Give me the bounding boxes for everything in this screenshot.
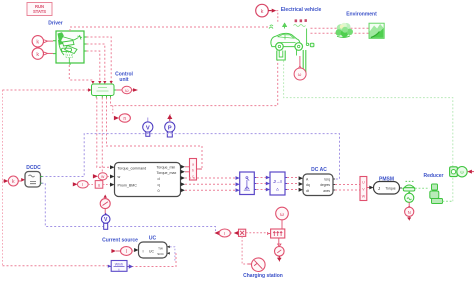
svg-text:STATS: STATS — [33, 9, 46, 14]
svg-text:0: 0 — [158, 189, 160, 193]
wire: control out3 feedback to TP block — [107, 98, 203, 170]
voltage sensor V vertical — [101, 213, 110, 230]
svg-text:d: d — [158, 177, 160, 181]
wires inverter to 3ph block — [335, 184, 360, 186]
svg-text:I: I — [142, 249, 143, 253]
svg-text:UC: UC — [149, 236, 157, 242]
wire X down to clock — [242, 236, 248, 264]
environment road block — [369, 23, 384, 38]
svg-text:N: N — [408, 210, 411, 215]
svg-text:k: k — [36, 52, 39, 58]
svg-text:w: w — [118, 175, 121, 179]
wires car to environment — [311, 27, 370, 29]
inverter block — [303, 174, 335, 196]
driver block D1 — [53, 29, 87, 65]
run stats box — [27, 3, 52, 16]
wire: driver top rail to car — [70, 27, 270, 31]
PMSM motor block — [374, 182, 403, 195]
svg-text:Reducer: Reducer — [423, 173, 443, 179]
svg-text:Current source: Current source — [102, 238, 138, 244]
multiply X block — [239, 229, 246, 236]
wire: driver out2 — [87, 44, 105, 81]
svg-text:a: a — [192, 163, 194, 167]
svg-text:Torque: Torque — [385, 187, 395, 191]
wire UC to lower purple — [170, 247, 175, 262]
wire: control out4 to vehicle — [111, 60, 278, 106]
svg-text:DC AC: DC AC — [311, 167, 327, 173]
svg-text:U: U — [362, 181, 365, 185]
svg-text:SOC: SOC — [157, 252, 164, 256]
shaft PMSM to inertia — [402, 187, 404, 189]
svg-text:b: b — [192, 169, 194, 173]
wire: driver out1 — [87, 37, 112, 81]
clock source — [248, 258, 265, 272]
gain k1 — [32, 36, 53, 47]
svg-text:Torque_command: Torque_command — [118, 166, 147, 170]
wire: dc bus purple rail — [42, 134, 340, 179]
wire: driver out3 — [87, 51, 100, 81]
three phase bus block — [360, 177, 370, 201]
wire: control out2 down to w source — [101, 98, 103, 172]
arrows out of torque block right — [181, 165, 186, 192]
arrows into control unit top — [91, 81, 112, 84]
arrow + sensor ellipse left of X — [214, 229, 238, 237]
svg-text:unit: unit — [119, 77, 128, 83]
wire: left edge loop vertical — [2, 90, 4, 266]
wire: mech green rail — [452, 177, 454, 202]
svg-text:Torque_max: Torque_max — [157, 171, 177, 175]
charging omega sensor — [276, 207, 289, 229]
wires switch to JI — [257, 177, 267, 179]
vehicle speed sensor — [294, 56, 306, 80]
shaft gearbox to vertical — [443, 200, 453, 202]
voltage sensor V on dc rail — [143, 118, 153, 137]
svg-text:Driver: Driver — [48, 20, 63, 26]
svg-text:Charging station: Charging station — [243, 273, 283, 279]
torque command block — [115, 163, 181, 197]
svg-text:P: P — [168, 125, 172, 131]
dcdc converter block — [25, 172, 43, 188]
svg-text:ω: ω — [280, 212, 284, 218]
rotary spring below inertia — [405, 191, 414, 202]
svg-text:k: k — [12, 179, 15, 185]
svg-text:W: W — [362, 195, 366, 199]
svg-text:Pnom_BMC: Pnom_BMC — [118, 183, 138, 187]
svg-text:I: I — [224, 231, 225, 236]
svg-text:UC: UC — [149, 249, 154, 253]
sensor n below rail — [113, 106, 131, 123]
svg-text:DCDC: DCDC — [26, 165, 41, 171]
rotary speed sensor w right of control unit — [116, 86, 138, 93]
svg-text:dt: dt — [306, 189, 309, 193]
gearbox — [430, 184, 443, 204]
arrow into PMSM — [369, 186, 373, 190]
wires d q 0 to inverter chain — [185, 177, 236, 179]
wheel torque source pair — [450, 167, 468, 177]
rotary inertia — [403, 181, 415, 191]
power sensor below multiplier — [100, 195, 110, 215]
svg-text:J: J — [378, 186, 380, 191]
gain k above car — [256, 4, 278, 23]
svg-text:Δ: Δ — [276, 187, 279, 192]
TP limiter block — [185, 159, 202, 181]
svg-text:degres: degres — [320, 183, 330, 187]
J to I transform block — [270, 172, 287, 195]
svg-text:dq: dq — [306, 183, 310, 187]
arrow into UC — [134, 248, 138, 252]
charge power sensor — [275, 238, 285, 260]
wire: driver bottom to control — [69, 65, 93, 82]
gain k2 — [32, 48, 53, 59]
svg-text:n: n — [123, 116, 126, 122]
power sensor P on dc rail — [165, 116, 175, 138]
svg-text:Electrical vehicle: Electrical vehicle — [281, 7, 322, 13]
svg-text:q: q — [158, 183, 160, 187]
gain k3 at left edge — [3, 176, 26, 186]
multiplier square — [95, 181, 109, 189]
speed sensor below — [405, 202, 414, 219]
svg-text:Environment: Environment — [346, 11, 377, 17]
ports of driver — [53, 29, 87, 65]
svg-text:k: k — [36, 40, 39, 46]
arrows into torque block left — [110, 165, 115, 186]
svg-text:Wh/h: Wh/h — [115, 262, 123, 266]
current source sensor I — [111, 247, 134, 256]
arrow into control unit left — [88, 88, 91, 91]
charger block — [268, 229, 285, 238]
svg-text:t: t — [119, 268, 120, 272]
ultracapacitor block — [139, 242, 170, 258]
marks above car — [269, 19, 307, 28]
under car links — [277, 50, 306, 74]
aero drag icon — [336, 23, 353, 38]
svg-text:ω: ω — [298, 72, 302, 77]
shaft inertia to gearbox — [415, 187, 430, 189]
svg-text:TW: TW — [158, 246, 163, 250]
wire: bottom rail — [3, 265, 109, 267]
svg-text:axes: axes — [323, 189, 330, 193]
svg-text:I: I — [82, 182, 83, 187]
svg-text:Torque_min: Torque_min — [157, 166, 176, 170]
svg-text:torq: torq — [325, 178, 331, 182]
wires JI to inverter — [287, 177, 299, 179]
wire: dc bus lower purple rail — [42, 183, 216, 231]
current sensor I — [73, 181, 95, 188]
current sensor w source into torque block — [93, 173, 110, 180]
control unit block — [92, 84, 117, 98]
svg-text:V: V — [146, 125, 150, 131]
wire: top rail to control unit — [3, 89, 89, 91]
arrow from right edge — [467, 170, 474, 174]
switch block — [240, 172, 257, 195]
car body — [271, 29, 314, 51]
wire: control out1 down to torque block port1 — [97, 98, 109, 168]
svg-text:ω: ω — [125, 88, 129, 93]
svg-text:I: I — [126, 249, 127, 255]
svg-text:J→I: J→I — [273, 179, 281, 184]
wire X to charger — [246, 232, 268, 234]
svg-text:k: k — [261, 9, 264, 15]
energy counter block — [108, 261, 132, 272]
